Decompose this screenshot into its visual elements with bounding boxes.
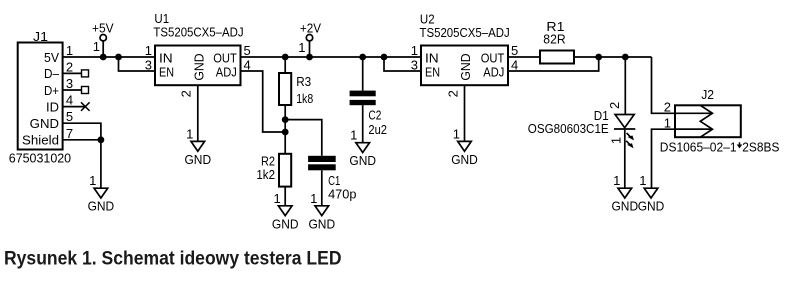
svg-text:2S8BS: 2S8BS <box>742 140 779 155</box>
junction dot J1 pin5/pin7 <box>98 136 105 143</box>
svg-text:1k2: 1k2 <box>256 167 275 182</box>
svg-text:4: 4 <box>66 93 73 108</box>
svg-text:OUT: OUT <box>481 50 505 65</box>
svg-text:3: 3 <box>66 76 73 91</box>
svg-text:TS5205CX5–ADJ: TS5205CX5–ADJ <box>420 25 510 40</box>
svg-text:GND: GND <box>349 153 376 168</box>
ground symbol for D1 <box>612 173 639 214</box>
svg-text:1: 1 <box>273 191 280 206</box>
wire C1 to ground <box>321 170 323 206</box>
svg-text:5: 5 <box>244 43 251 58</box>
svg-text:1: 1 <box>411 43 418 58</box>
svg-text:5V: 5V <box>44 50 59 65</box>
svg-text:+5V: +5V <box>92 20 114 35</box>
svg-text:5: 5 <box>511 43 518 58</box>
svg-text:2: 2 <box>66 59 73 74</box>
svg-text:ADJ: ADJ <box>483 64 504 79</box>
supply +2V symbol P2 <box>298 20 321 57</box>
svg-text:GND: GND <box>451 152 478 167</box>
svg-text:Shield: Shield <box>22 133 59 148</box>
ground symbol for U1 <box>185 126 212 167</box>
svg-text:1: 1 <box>613 173 620 188</box>
svg-text:2: 2 <box>445 90 460 97</box>
ground symbol for J1 <box>88 173 115 214</box>
svg-text:1: 1 <box>639 173 646 188</box>
wire J2 pin 1 to ground <box>652 129 713 188</box>
svg-text:ADJ: ADJ <box>216 64 237 79</box>
wire C2 to ground <box>362 105 364 143</box>
wire rail to J2 pin 2 <box>652 57 713 113</box>
svg-text:1: 1 <box>453 126 460 141</box>
svg-text:GND: GND <box>272 216 299 231</box>
resistor R3 1k8 <box>279 57 313 106</box>
capacitor C2 2u2 <box>350 91 387 137</box>
supply +5V symbol P1 <box>92 20 114 57</box>
resistor R1 82R <box>540 19 574 64</box>
svg-text:J2: J2 <box>701 87 714 102</box>
svg-text:4: 4 <box>511 57 518 72</box>
connector J1 675031020 <box>9 29 73 166</box>
ground symbol for R2 <box>272 191 299 232</box>
svg-text:1: 1 <box>186 126 193 141</box>
svg-text:1: 1 <box>66 43 73 58</box>
svg-text:GND: GND <box>30 116 59 131</box>
svg-text:OUT: OUT <box>213 50 237 65</box>
svg-text:GND: GND <box>309 216 336 231</box>
wire C2 top stub <box>362 57 364 91</box>
wire D1 cathode to ground <box>624 130 626 188</box>
wire J1 pin7 Shield stub <box>63 140 101 188</box>
wire U2 GND pin 2 <box>464 85 466 141</box>
op-amp regulator U2 TS5205CX5-ADJ <box>411 11 518 97</box>
ground symbol for C1 <box>309 191 336 232</box>
svg-text:5: 5 <box>66 109 73 124</box>
wire J1 pin2 D- stub <box>63 70 89 77</box>
wire +2V branch to U2 EN <box>384 57 421 71</box>
svg-text:1: 1 <box>350 128 357 143</box>
svg-text:82R: 82R <box>543 32 565 47</box>
svg-text:EN: EN <box>159 64 174 79</box>
svg-text:1: 1 <box>298 40 305 55</box>
junction dot R3 top <box>282 54 289 61</box>
junction dot +2V stub <box>306 54 313 61</box>
wire R2 to ground <box>284 187 286 206</box>
junction dot +5V stub <box>100 54 107 61</box>
wire U2 ADJ feedback <box>508 57 599 71</box>
junction dot C1 branch <box>282 116 289 123</box>
ground symbol for C2 <box>349 128 376 169</box>
wire U1 ADJ to divider node <box>241 71 286 132</box>
svg-text:GND: GND <box>458 53 473 80</box>
wire J1 pin4 ID stub with no-connect X <box>63 102 90 111</box>
svg-text:IN: IN <box>159 50 173 65</box>
ground symbol for J2 <box>638 173 665 214</box>
wire U2 OUT to R1 <box>508 56 540 58</box>
svg-text:R3: R3 <box>296 74 311 89</box>
svg-text:D–: D– <box>44 66 60 81</box>
op-amp regulator U1 TS5205CX5-ADJ <box>145 11 251 98</box>
svg-text:1: 1 <box>89 173 96 188</box>
svg-text:D+: D+ <box>44 83 59 98</box>
wire +5V branch to U1 EN <box>119 57 156 71</box>
junction dot ADJ node <box>282 129 289 136</box>
svg-text:GND: GND <box>185 152 212 167</box>
svg-text:GND: GND <box>638 199 665 214</box>
svg-text:1: 1 <box>664 115 671 130</box>
svg-text:TS5205CX5–ADJ: TS5205CX5–ADJ <box>153 24 243 39</box>
svg-text:3: 3 <box>145 57 152 72</box>
svg-text:1: 1 <box>609 137 624 144</box>
resistor R2 1k2 <box>256 154 291 187</box>
svg-text:470p: 470p <box>328 187 356 202</box>
junction dot U2 EN branch <box>381 54 388 61</box>
svg-text:EN: EN <box>425 64 440 79</box>
svg-text:+2V: +2V <box>300 20 321 35</box>
wire R1 to LED rail <box>574 56 652 58</box>
capacitor C1 470p <box>308 156 356 202</box>
svg-text:IN: IN <box>425 50 439 65</box>
svg-text:3: 3 <box>411 57 418 72</box>
svg-text:GND: GND <box>612 199 639 214</box>
svg-text:1: 1 <box>310 191 317 206</box>
wire U1 GND pin 2 <box>197 85 199 141</box>
svg-text:675031020: 675031020 <box>9 151 71 166</box>
junction dot C2 top <box>359 54 366 61</box>
ground symbol for U2 <box>451 126 478 167</box>
svg-text:GND: GND <box>88 199 115 214</box>
wire J1 pin3 D+ stub <box>63 87 89 94</box>
svg-text:J1: J1 <box>33 29 48 44</box>
wire +2V net: U1 OUT to U2 IN <box>241 56 422 58</box>
junction dot EN branch <box>115 54 122 61</box>
LED D1 OSG80603C1E <box>528 102 636 148</box>
svg-text:4: 4 <box>244 57 251 72</box>
wire R3 bottom to R2 top <box>284 105 286 154</box>
wire C1 branch <box>285 120 322 156</box>
junction dot ADJ feedback <box>595 54 602 61</box>
svg-text:1: 1 <box>93 39 100 54</box>
svg-text:2u2: 2u2 <box>368 122 387 137</box>
connector J2 DS1065-02-1*2S8BS <box>660 87 780 155</box>
svg-text:2: 2 <box>607 102 622 109</box>
svg-text:DS1065–02–1: DS1065–02–1 <box>660 140 737 155</box>
svg-text:1: 1 <box>145 43 152 58</box>
svg-text:Rysunek 1. Schemat ideowy test: Rysunek 1. Schemat ideowy testera LED <box>4 248 342 270</box>
svg-text:OSG80603C1E: OSG80603C1E <box>528 121 609 136</box>
wire +5V net: J1 pin1 to U1 IN <box>63 56 155 58</box>
junction dot D1 branch <box>622 54 629 61</box>
svg-text:C2: C2 <box>368 108 381 123</box>
svg-text:GND: GND <box>191 53 206 80</box>
svg-text:2: 2 <box>179 90 194 97</box>
svg-text:7: 7 <box>66 126 73 141</box>
wire D1 anode stub <box>624 57 626 115</box>
svg-text:ID: ID <box>46 99 59 114</box>
svg-text:2: 2 <box>664 100 671 115</box>
wire J1 pin5 GND stub <box>63 123 101 140</box>
svg-text:1k8: 1k8 <box>296 91 313 106</box>
